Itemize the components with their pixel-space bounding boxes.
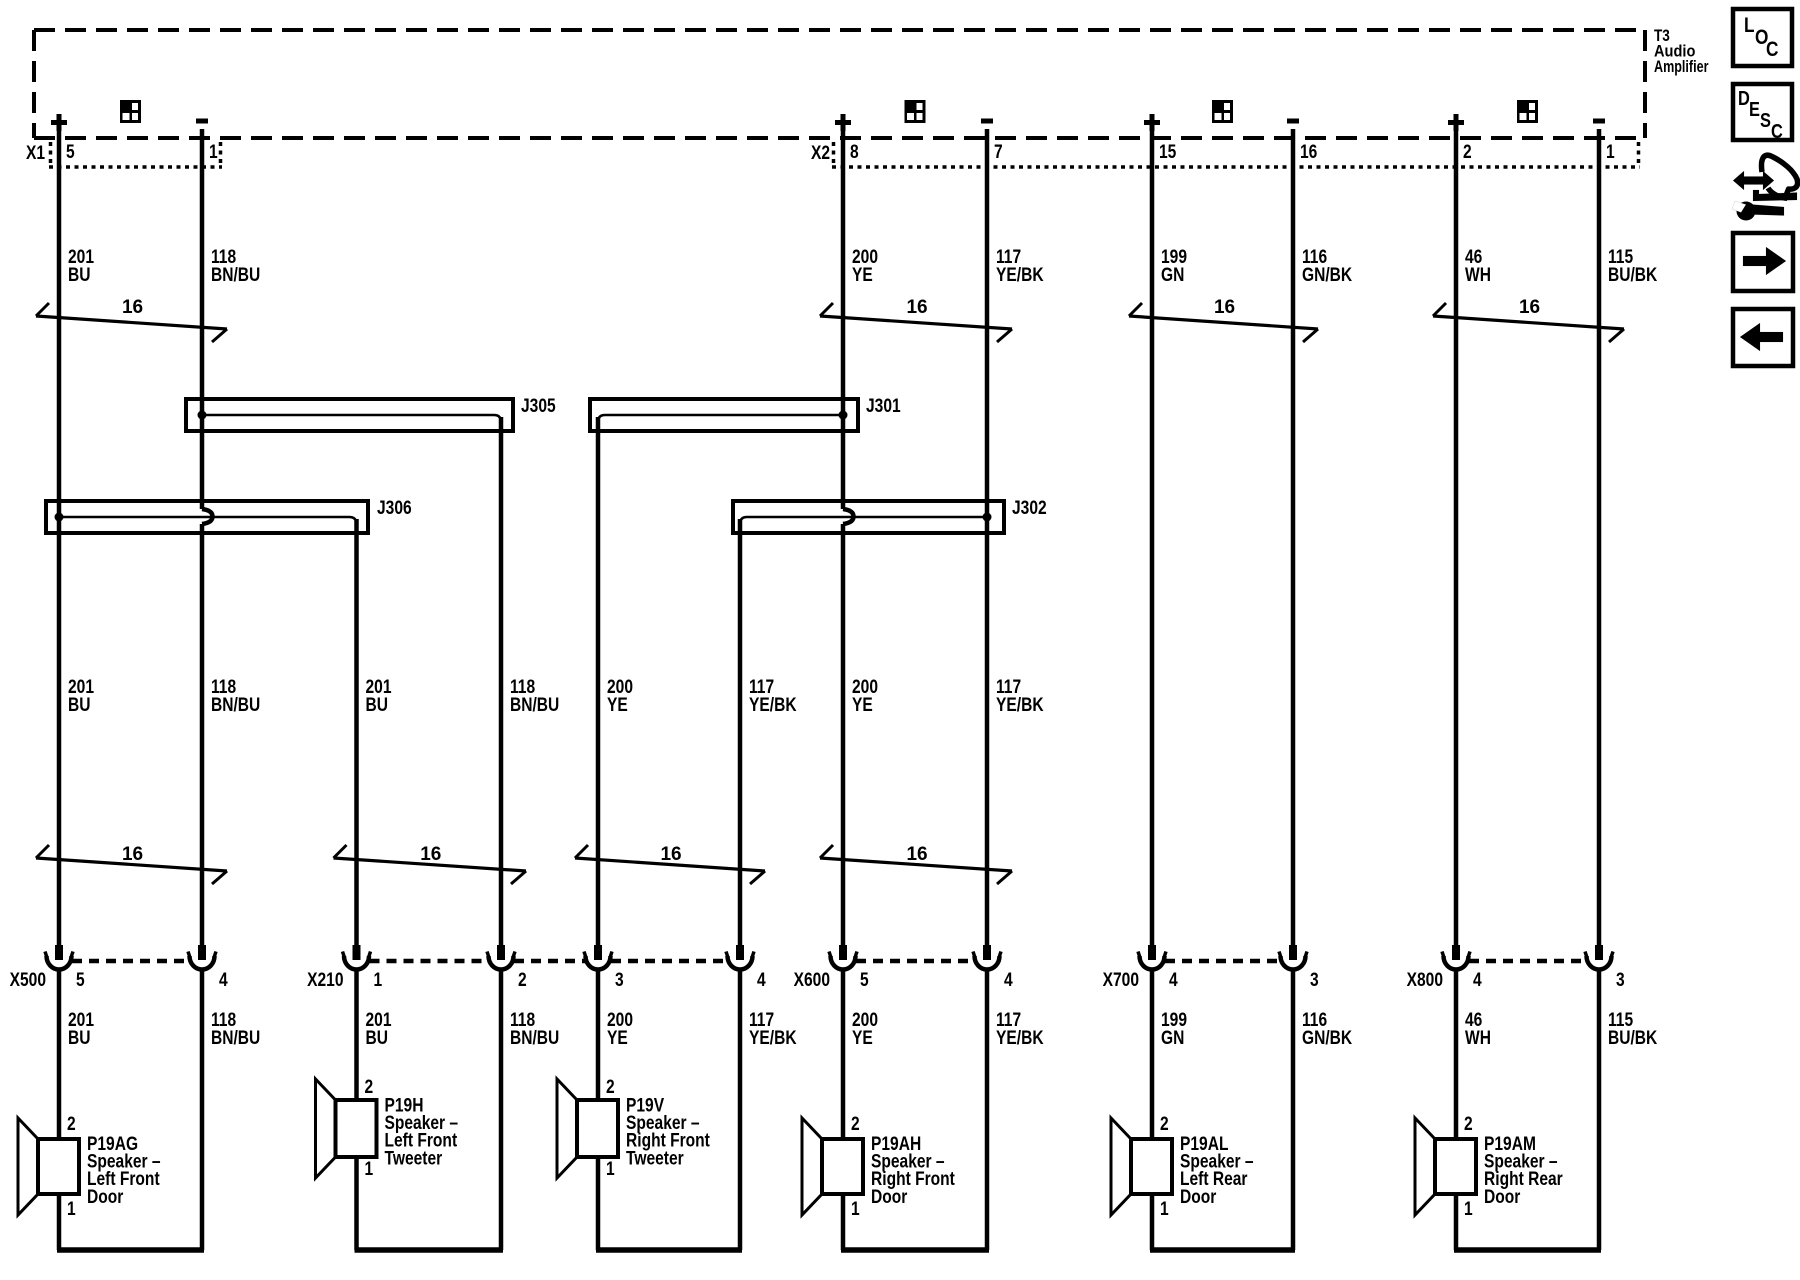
svg-text:X700: X700 [1103, 969, 1139, 991]
svg-text:X210: X210 [307, 969, 343, 991]
svg-text:Door: Door [1180, 1185, 1217, 1207]
svg-text:16: 16 [1519, 297, 1540, 318]
svg-text:8: 8 [850, 141, 859, 163]
svg-text:BU: BU [68, 694, 90, 716]
svg-text:Tweeter: Tweeter [385, 1147, 443, 1169]
svg-text:16: 16 [660, 844, 681, 865]
svg-text:BU: BU [68, 264, 90, 286]
svg-text:X600: X600 [794, 969, 830, 991]
svg-text:16: 16 [906, 297, 927, 318]
svg-text:1: 1 [67, 1198, 76, 1220]
svg-text:1: 1 [365, 1158, 374, 1180]
svg-text:YE/BK: YE/BK [749, 694, 797, 716]
svg-text:16: 16 [1300, 141, 1318, 163]
svg-text:BU: BU [68, 1027, 90, 1049]
svg-text:16: 16 [122, 297, 143, 318]
svg-text:X2: X2 [811, 142, 830, 164]
svg-text:BN/BU: BN/BU [510, 1027, 559, 1049]
svg-text:YE/BK: YE/BK [996, 264, 1044, 286]
svg-text:5: 5 [860, 969, 869, 991]
svg-text:15: 15 [1159, 141, 1177, 163]
svg-text:YE/BK: YE/BK [996, 1027, 1044, 1049]
svg-text:C: C [1771, 119, 1783, 142]
svg-text:4: 4 [1169, 969, 1178, 991]
svg-text:X1: X1 [26, 142, 45, 164]
svg-text:Door: Door [1484, 1185, 1521, 1207]
svg-text:3: 3 [615, 969, 624, 991]
svg-text:YE: YE [852, 264, 873, 286]
svg-text:1: 1 [606, 1158, 615, 1180]
svg-text:2: 2 [606, 1076, 615, 1098]
svg-text:BN/BU: BN/BU [510, 694, 559, 716]
svg-text:4: 4 [1004, 969, 1013, 991]
svg-text:X500: X500 [10, 969, 46, 991]
svg-text:5: 5 [76, 969, 85, 991]
svg-text:J305: J305 [521, 395, 556, 417]
svg-text:BU/BK: BU/BK [1608, 264, 1658, 286]
svg-text:2: 2 [1464, 1113, 1473, 1135]
svg-text:GN/BK: GN/BK [1302, 1027, 1353, 1049]
svg-text:YE: YE [607, 694, 628, 716]
svg-text:S: S [1760, 108, 1771, 131]
svg-text:GN: GN [1161, 264, 1184, 286]
svg-text:4: 4 [757, 969, 766, 991]
svg-text:1: 1 [851, 1198, 860, 1220]
svg-text:3: 3 [1616, 969, 1625, 991]
svg-text:WH: WH [1465, 264, 1491, 286]
svg-text:YE: YE [852, 694, 873, 716]
svg-text:BU: BU [366, 694, 388, 716]
svg-text:BN/BU: BN/BU [211, 1027, 260, 1049]
svg-text:Door: Door [871, 1185, 908, 1207]
svg-text:16: 16 [122, 844, 143, 865]
svg-text:YE: YE [852, 1027, 873, 1049]
svg-text:2: 2 [67, 1113, 76, 1135]
svg-text:2: 2 [365, 1076, 374, 1098]
svg-text:YE: YE [607, 1027, 628, 1049]
svg-text:16: 16 [420, 844, 441, 865]
svg-text:5: 5 [66, 141, 75, 163]
svg-text:16: 16 [1214, 297, 1235, 318]
svg-text:1: 1 [1160, 1198, 1169, 1220]
svg-text:YE/BK: YE/BK [996, 694, 1044, 716]
svg-text:E: E [1749, 97, 1760, 120]
svg-text:4: 4 [1473, 969, 1482, 991]
svg-text:Tweeter: Tweeter [626, 1147, 684, 1169]
svg-text:1: 1 [374, 969, 383, 991]
svg-text:1: 1 [1464, 1198, 1473, 1220]
svg-text:7: 7 [994, 141, 1003, 163]
svg-text:2: 2 [851, 1113, 860, 1135]
svg-text:2: 2 [1463, 141, 1472, 163]
svg-text:J302: J302 [1012, 497, 1047, 519]
svg-text:D: D [1738, 86, 1750, 109]
svg-text:Door: Door [87, 1185, 124, 1207]
svg-text:BU: BU [366, 1027, 388, 1049]
svg-text:C: C [1766, 39, 1779, 62]
svg-text:J306: J306 [377, 497, 412, 519]
svg-text:1: 1 [209, 141, 218, 163]
svg-text:GN/BK: GN/BK [1302, 264, 1353, 286]
svg-text:BU/BK: BU/BK [1608, 1027, 1658, 1049]
svg-text:BN/BU: BN/BU [211, 694, 260, 716]
svg-text:L: L [1744, 15, 1755, 38]
svg-text:1: 1 [1606, 141, 1615, 163]
svg-text:2: 2 [1160, 1113, 1169, 1135]
svg-text:4: 4 [219, 969, 228, 991]
svg-text:2: 2 [518, 969, 527, 991]
svg-text:X800: X800 [1407, 969, 1443, 991]
svg-text:16: 16 [906, 844, 927, 865]
svg-text:3: 3 [1310, 969, 1319, 991]
svg-text:WH: WH [1465, 1027, 1491, 1049]
svg-text:GN: GN [1161, 1027, 1184, 1049]
svg-text:YE/BK: YE/BK [749, 1027, 797, 1049]
svg-text:Amplifier: Amplifier [1654, 57, 1709, 76]
svg-text:J301: J301 [866, 395, 901, 417]
svg-text:BN/BU: BN/BU [211, 264, 260, 286]
